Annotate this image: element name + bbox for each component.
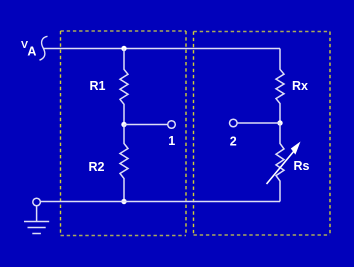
resistor R1 — [120, 49, 128, 125]
rheostat Rs — [276, 123, 284, 202]
svg-text:R2: R2 — [89, 160, 105, 174]
svg-text:Rs: Rs — [294, 159, 310, 173]
source squiggle at VA — [40, 36, 48, 60]
junction dot at top of R1 — [121, 46, 126, 51]
wire: terminal 2 to junction — [238, 122, 281, 124]
svg-text:Rx: Rx — [292, 79, 308, 93]
rheostat arrow on Rs — [267, 142, 301, 185]
svg-text:2: 2 — [230, 134, 237, 148]
resistor R2 — [120, 125, 128, 202]
wire: bottom bus from ground to Rs — [41, 201, 280, 203]
terminal 2 — [230, 119, 238, 127]
ground symbol — [24, 206, 49, 234]
wire: junction to terminal 1 — [124, 124, 167, 126]
junction dot between R1 and R2 — [121, 122, 126, 127]
junction dot at bottom of Rx — [277, 120, 282, 125]
dashed enclosure box right — [194, 32, 331, 236]
svg-text:1: 1 — [168, 134, 175, 148]
svg-text:R1: R1 — [90, 79, 106, 93]
dashed enclosure box left — [61, 31, 187, 236]
resistor Rx — [276, 49, 284, 124]
terminal 1 — [168, 121, 176, 129]
junction dot at bottom of R2 — [121, 199, 126, 204]
svg-text:A: A — [27, 45, 36, 59]
wire: top bus from VA to Rx — [43, 48, 280, 50]
node VA label — [21, 39, 36, 59]
ground terminal circle — [33, 198, 41, 206]
